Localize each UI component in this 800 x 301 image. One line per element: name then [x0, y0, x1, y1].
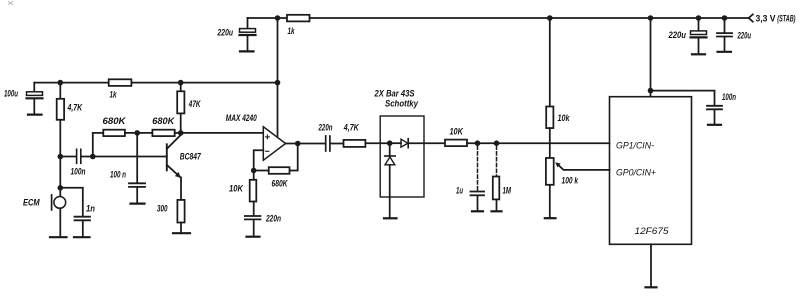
resistor 680K (bias b) — [152, 130, 174, 136]
node junction rail Vdd — [648, 15, 654, 21]
node junction feedback — [251, 168, 257, 174]
ground (1u) — [472, 210, 483, 212]
ground (ECM) — [50, 236, 67, 238]
diode D2 shunt schottky — [385, 143, 396, 217]
svg-text:100 k: 100 k — [562, 176, 579, 186]
ground (100n Vdd) — [708, 124, 721, 126]
node junction 4.7K top — [58, 80, 64, 86]
wire 10k pullup drop — [549, 18, 551, 107]
wire dashed to 1u — [477, 146, 479, 190]
capacitor 100n (Vdd decouple) — [707, 106, 722, 124]
svg-text:220n: 220n — [265, 214, 281, 224]
pin - — [266, 150, 269, 152]
wire feedback to node — [254, 170, 269, 172]
svg-text:47K: 47K — [188, 99, 201, 109]
ground (below 100u) — [28, 113, 42, 115]
capacitor 220u (top left electrolytic) — [240, 18, 256, 51]
wire PIC Vss — [650, 244, 652, 286]
ground (PIC) — [646, 286, 657, 288]
node junction rail 220u b — [696, 15, 702, 21]
svg-text:680K: 680K — [152, 116, 176, 126]
diode D1 series schottky — [390, 139, 445, 148]
ground (below 220u top left) — [240, 50, 254, 52]
node junction rail 10k — [547, 15, 553, 21]
svg-text:ECM: ECM — [23, 198, 40, 208]
svg-text:1k: 1k — [110, 90, 118, 100]
ground (gain leg) — [247, 236, 260, 238]
wire bias midpoint drop — [136, 133, 138, 183]
svg-text:680K: 680K — [103, 116, 128, 126]
capacitor 220u (rail ceramic) — [717, 18, 732, 51]
node junction Vdd 100n — [648, 88, 654, 94]
wire bias riser — [92, 133, 94, 157]
terminal 3,3 V (STAB) — [749, 14, 753, 21]
wire 4,7K to detector — [365, 142, 389, 144]
node junction detector — [387, 140, 393, 146]
op-amp U1 MAX4240 — [263, 127, 285, 161]
svg-text:300: 300 — [157, 204, 168, 214]
node junction base/bias — [90, 154, 96, 160]
capacitor 220u (rail electrolytic) — [691, 18, 707, 53]
svg-text:3,3 V(STAB): 3,3 V(STAB) — [756, 14, 796, 24]
capacitor 1u — [471, 192, 485, 211]
svg-text:Schottky: Schottky — [385, 99, 419, 109]
node junction 680K midpoint — [134, 130, 140, 136]
svg-text:10K: 10K — [229, 184, 244, 194]
capacitor 100u (left electrolytic) — [27, 83, 43, 114]
IC 12F675 — [610, 97, 692, 245]
microphone ECM — [52, 195, 66, 236]
box detector module — [380, 116, 424, 197]
svg-text:100n: 100n — [71, 167, 86, 177]
transistor BC847 — [167, 135, 181, 200]
wire dashed to 1M — [496, 146, 498, 177]
node junction 47K top — [178, 80, 184, 86]
svg-text:10K: 10K — [450, 127, 465, 137]
resistor 680K (feedback) — [269, 167, 290, 174]
node junction output — [295, 141, 301, 147]
ground (detector) — [384, 217, 397, 219]
wire second rail — [34, 82, 277, 84]
svg-text:12F675: 12F675 — [635, 226, 670, 236]
ground (220u ceramic) — [718, 51, 732, 53]
wire op-amp output — [286, 143, 325, 145]
capacitor 1n — [75, 217, 91, 237]
svg-text:BC847: BC847 — [180, 152, 202, 162]
node junction top rail / 220u — [275, 15, 281, 21]
svg-text:4,7K: 4,7K — [67, 103, 84, 113]
wire 3.3V drop to second rail and op-amp power — [277, 18, 279, 136]
svg-text:680K: 680K — [272, 179, 289, 189]
svg-text:100 n: 100 n — [110, 170, 126, 180]
resistor 10K (op-amp gain) — [250, 171, 257, 216]
resistor 1k (second rail) — [109, 79, 132, 86]
wire Vdd to 100n — [651, 91, 715, 105]
pin + — [266, 135, 270, 139]
wire PIC Vdd — [650, 18, 652, 97]
svg-text:1u: 1u — [456, 186, 463, 196]
ground (1n cap) — [74, 236, 90, 238]
capacitor 100 n (bias decouple) — [129, 183, 145, 202]
svg-text:220n: 220n — [318, 123, 333, 133]
svg-text:4,7K: 4,7K — [343, 123, 360, 133]
svg-text:10k: 10k — [558, 113, 571, 123]
ground (bias decouple cap) — [131, 203, 145, 205]
svg-text:1M: 1M — [503, 186, 512, 196]
resistor 300 — [177, 200, 184, 232]
resistor 1k (top rail) — [287, 15, 310, 22]
node junction 1M — [494, 140, 500, 146]
capacitor 220n (gain leg) — [245, 216, 261, 236]
ground (1M) — [492, 210, 502, 212]
svg-text:GP1/CIN-: GP1/CIN- — [616, 140, 654, 150]
wire - input — [254, 150, 264, 170]
wire to 1n cap — [60, 188, 83, 216]
resistor 680K (bias a) — [103, 130, 125, 136]
wire + input — [181, 132, 264, 134]
wire to 100n input cap — [60, 156, 76, 158]
resistor 4,7K (series) — [344, 140, 366, 147]
svg-text:220u: 220u — [668, 30, 687, 40]
node junction cap/bias — [58, 154, 64, 160]
resistor 10k (pullup) — [546, 107, 553, 159]
svg-text:MAX 4240: MAX 4240 — [226, 113, 257, 123]
resistor 4,7K — [57, 83, 64, 197]
svg-text:100n: 100n — [722, 92, 736, 102]
resistor 47K — [177, 83, 184, 133]
wire feedback drop — [290, 144, 298, 171]
svg-text:100u: 100u — [4, 89, 18, 99]
capacitor 220n (series coupling) — [326, 136, 330, 151]
svg-text:1k: 1k — [288, 26, 296, 36]
capacitor 100n (input coupling) — [77, 149, 81, 163]
wire detector out to PIC — [467, 142, 610, 144]
wire top 3.3V rail — [248, 17, 749, 19]
wire between 680Ks — [125, 132, 152, 134]
wire base line — [82, 156, 167, 158]
wire faint top-left artifact — [9, 2, 13, 5]
node junction ECM — [58, 185, 64, 191]
ground (300) — [173, 232, 190, 234]
resistor 1M — [493, 177, 500, 211]
node junction 1u — [475, 140, 481, 146]
svg-text:GP0/CIN+: GP0/CIN+ — [616, 167, 656, 177]
potentiometer 100 k — [546, 158, 610, 217]
node junction op-amp + input — [178, 130, 184, 136]
svg-text:2X Bar 43S: 2X Bar 43S — [374, 89, 415, 99]
wire 680K b to node — [175, 132, 181, 134]
ground (220u rail) — [692, 53, 705, 55]
svg-text:220u: 220u — [217, 28, 234, 38]
ground (pot) — [545, 217, 556, 219]
node junction rail 220u c — [722, 15, 728, 21]
wire cap to 4,7K — [331, 143, 344, 145]
node junction second rail x277 — [275, 80, 281, 86]
svg-text:1n: 1n — [86, 204, 95, 214]
svg-text:220u: 220u — [737, 31, 751, 41]
resistor 10K (detector out) — [445, 140, 467, 147]
